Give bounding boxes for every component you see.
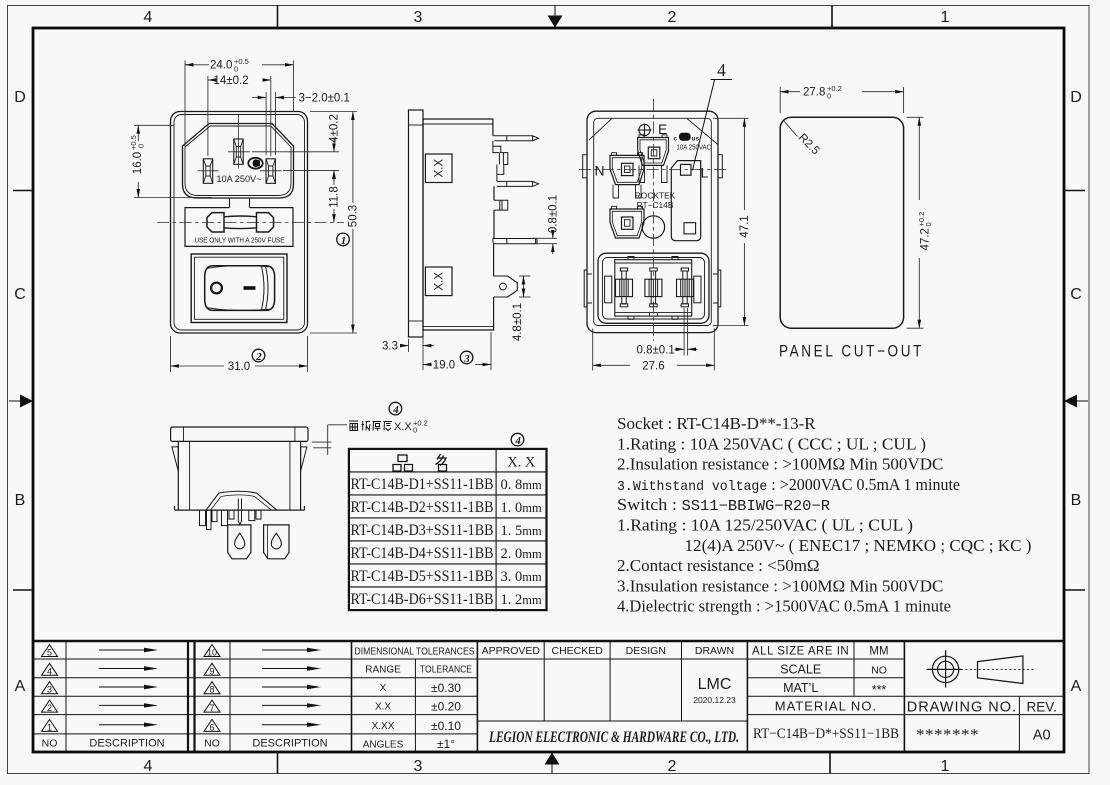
svg-text:50.3: 50.3 (347, 205, 359, 227)
svg-text:C: C (14, 286, 26, 303)
panel thickness label 面板厚度X.X (349, 419, 428, 435)
svg-text:3: 3 (414, 758, 423, 775)
svg-text:TOLERANCE: TOLERANCE (420, 665, 472, 676)
svg-text:2: 2 (668, 9, 677, 26)
svg-text:us: us (692, 136, 700, 143)
text 16.0 (129, 135, 146, 174)
svg-text:24.0: 24.0 (210, 60, 232, 72)
table header 品名 glyphs (393, 454, 447, 471)
svg-text:12(4)A 250V~ ( ENEC17 ; NEMKO: 12(4)A 250V~ ( ENEC17 ; NEMKO ; CQC ; KC… (685, 536, 1032, 555)
zone tick top 4/3 (277, 6, 279, 29)
view3 outlet face top bar (615, 262, 692, 264)
svg-text:X: X (380, 683, 387, 694)
dim 3.3 arrows (400, 345, 409, 347)
svg-text:47.1: 47.1 (739, 215, 751, 237)
R2.5 leader (784, 121, 798, 137)
svg-text:4: 4 (47, 666, 52, 676)
svg-text:B: B (1071, 492, 1082, 509)
view2 switch housing steps (493, 141, 508, 182)
svg-text:RT−C14B: RT−C14B (637, 200, 674, 210)
balloon 4a (389, 402, 402, 416)
contact middle (645, 268, 662, 307)
dim 0.8±0.1 arrows (552, 231, 554, 238)
svg-text:CHECKED: CHECKED (552, 645, 604, 657)
zone center arrow right (1064, 395, 1088, 408)
svg-text:±0.20: ±0.20 (431, 700, 461, 714)
table1 right double line (187, 641, 189, 751)
view2 dim texts (382, 195, 559, 372)
revision triangles table1 (42, 645, 58, 732)
svg-text:RT-C14B-D3+SS11-1BB: RT-C14B-D3+SS11-1BB (351, 522, 494, 539)
view1 fuse right cap (257, 213, 274, 232)
svg-text:X.X: X.X (434, 272, 446, 291)
zone labels top (144, 9, 950, 26)
contact right (677, 268, 694, 307)
view1 switch inner bezel (194, 257, 283, 319)
svg-text:RANGE: RANGE (365, 665, 401, 676)
revision arrows table2 (262, 648, 321, 727)
horizontal row line 2 left (33, 677, 477, 679)
svg-text:4: 4 (144, 758, 153, 775)
view1 C14 inlet outer (183, 124, 294, 199)
svg-text:c: c (674, 136, 678, 143)
svg-text:RT-C14B-D1+SS11-1BB: RT-C14B-D1+SS11-1BB (351, 476, 494, 493)
svg-text:ANGLES: ANGLES (363, 739, 404, 750)
view3 outlet face bottom bar (615, 312, 692, 314)
view1 crosshair pin E (228, 151, 250, 153)
dim 4.8±0.1 ext lines (519, 275, 531, 277)
glyph 品 (393, 455, 413, 471)
zone center arrow bottom (545, 753, 560, 774)
view1 centerline pin E vertical (238, 115, 240, 169)
horizontal row line 5 left (33, 733, 477, 735)
svg-text:11.8: 11.8 (329, 186, 341, 208)
view3 E pin housing (638, 138, 669, 166)
view2 body right edge segments (423, 186, 494, 330)
svg-text:±1°: ±1° (437, 737, 455, 751)
view3 face notches bottom (628, 313, 678, 320)
svg-text:4.Dielectric strength : >1500: 4.Dielectric strength : >1500VAC 0.5mA 1… (617, 597, 951, 616)
title block top edge (33, 640, 1064, 643)
svg-text:0: 0 (234, 65, 238, 74)
glyph 面 (349, 421, 358, 431)
view3 outlet contacts (616, 268, 694, 307)
svg-text:Socket : RT-C14B-D**-13-R: Socket : RT-C14B-D**-13-R (617, 414, 816, 433)
view2 dimensions (400, 231, 557, 370)
view1 body outline outer (171, 112, 308, 334)
view3 N housing (610, 155, 644, 184)
panel cutout rectangle (780, 117, 903, 328)
view3 body outer (587, 111, 718, 332)
view5 rocker dome (206, 491, 277, 510)
svg-text:0: 0 (924, 222, 933, 226)
approved col dividers (543, 641, 545, 721)
view3 dimensions (593, 118, 749, 370)
svg-text:PANEL CUT−OUT: PANEL CUT−OUT (779, 343, 924, 361)
view3 screw symbol (638, 124, 652, 137)
view5 flange division lines (183, 427, 185, 441)
view3 N pin (622, 163, 634, 175)
svg-text:3.3: 3.3 (382, 341, 398, 353)
view3 B housing ears (612, 206, 643, 209)
svg-text:3. 0mm: 3. 0mm (501, 569, 542, 585)
svg-text:L: L (701, 165, 709, 181)
glyph 板 (362, 421, 371, 431)
svg-text:X.X: X.X (434, 159, 446, 178)
view3 dim texts (637, 215, 751, 372)
svg-text:10A 250VAC: 10A 250VAC (677, 143, 712, 152)
svg-text:±0.10: ±0.10 (431, 719, 461, 733)
svg-text:1: 1 (341, 235, 347, 247)
company row top line (477, 720, 747, 722)
view5 spade terminal right (264, 525, 289, 559)
svg-text:E: E (658, 121, 667, 137)
view5 bottom edge (175, 506, 305, 510)
right info texts (752, 646, 1057, 716)
svg-text:D: D (14, 89, 26, 106)
balloon 3 (460, 351, 473, 365)
view5 body sides (178, 441, 300, 510)
dim 4±0.2 ext lines (252, 151, 339, 153)
svg-text:1: 1 (941, 9, 950, 26)
balloon 1 (337, 233, 350, 247)
view1 fuse centerline (157, 221, 344, 223)
view5 left wedge (172, 447, 178, 471)
table outline (349, 449, 547, 610)
svg-text:MAT’L: MAT’L (783, 681, 818, 695)
view1 rocker top/bottom shade lines (206, 266, 272, 311)
view3 C13 outlet outer (598, 253, 709, 323)
svg-text:2: 2 (255, 351, 262, 363)
table row lines (349, 471, 547, 473)
view5 center terminal pin (238, 499, 241, 525)
drawn col right edge (746, 641, 748, 751)
svg-text:3.Insulation resistance : >10: 3.Insulation resistance : >100MΩ Min 500… (617, 576, 943, 595)
svg-text:0.8±0.1: 0.8±0.1 (547, 195, 559, 233)
horizontal row line 2 right (747, 677, 904, 679)
view3 body inner face (594, 118, 712, 325)
view1 certification logo (248, 158, 262, 169)
view3 B housing (610, 209, 644, 238)
view3 N housing legs (613, 185, 641, 198)
svg-text:0: 0 (827, 91, 831, 100)
table column divider (495, 449, 497, 610)
glyph 厚 (373, 422, 382, 431)
svg-text:ROCKTEK: ROCKTEK (635, 191, 676, 201)
svg-text:2.Contact resistance : <50mΩ: 2.Contact resistance : <50mΩ (617, 556, 820, 575)
svg-text:3−2.0±0.1: 3−2.0±0.1 (299, 93, 350, 105)
view1 switch dash symbol (244, 286, 256, 290)
view3 E housing legs (639, 165, 667, 182)
svg-text:31.0: 31.0 (228, 361, 250, 373)
view3 face side brackets (605, 276, 612, 303)
dim 0.8±0.1 ext lines (683, 308, 685, 356)
zone tick top 2/1 (831, 6, 833, 29)
view1 fuse left cap (207, 213, 224, 232)
svg-text:0: 0 (413, 426, 417, 435)
dim 47.1 ext lines (713, 117, 749, 119)
mm col divider (853, 641, 855, 696)
zone tick right D/C (1064, 190, 1085, 192)
panel thickness callout lines (312, 425, 347, 455)
svg-text:4: 4 (514, 435, 521, 447)
zone tick bottom 4/3 (277, 752, 279, 774)
revision arrows table1 (99, 648, 158, 727)
view3 fuse slot lower square (684, 223, 696, 234)
svg-text:8: 8 (209, 685, 214, 695)
svg-text:3: 3 (47, 685, 52, 695)
svg-text:DRAWING NO.: DRAWING NO. (907, 700, 1017, 716)
svg-text:RT-C14B-D2+SS11-1BB: RT-C14B-D2+SS11-1BB (351, 499, 494, 516)
svg-text:A: A (1071, 678, 1082, 695)
view3 face notches top (628, 257, 678, 260)
svg-text:1. 2mm: 1. 2mm (501, 592, 542, 608)
svg-text:1: 1 (941, 758, 950, 775)
dim 4.8±0.1 line (523, 276, 525, 297)
svg-text:27.6: 27.6 (642, 360, 664, 372)
right section divider (903, 641, 905, 751)
view1 rocker front edge lines (262, 266, 269, 310)
view3 B pin (622, 217, 634, 229)
view2 switch pin 1 (493, 136, 539, 141)
view3 cURus logo (674, 133, 700, 143)
svg-text:RT−C14B−D*+SS11−1BB: RT−C14B−D*+SS11−1BB (753, 726, 899, 742)
dim 47.2 line (918, 117, 920, 200)
dim 50.3 ext lines (310, 111, 357, 113)
table2 right edge (351, 641, 353, 751)
view1 fuse compartment box (185, 208, 293, 247)
svg-text:2020.12.23: 2020.12.23 (693, 695, 736, 705)
svg-text:4.8±0.1: 4.8±0.1 (512, 303, 524, 341)
approved header texts (482, 645, 735, 657)
view1 C14 inlet inner (185, 126, 291, 196)
horizontal row line 4 left (33, 714, 477, 716)
svg-text:2: 2 (47, 703, 52, 713)
third angle projection symbol (927, 650, 1035, 687)
dim 14 ext lines (207, 76, 209, 156)
svg-text:ALL SIZE ARE IN: ALL SIZE ARE IN (752, 646, 849, 658)
tolerance col divider (414, 659, 416, 751)
view5 right wedge (301, 447, 307, 471)
svg-text:USE ONLY WITH A 250V FUSE: USE ONLY WITH A 250V FUSE (195, 236, 285, 245)
view1 switch outer bezel (191, 254, 287, 323)
zone tick right B/A (1064, 589, 1085, 591)
zone tick left D/C (13, 190, 33, 192)
svg-text:47.2: 47.2 (920, 228, 932, 250)
view3 side latch lower right (713, 270, 721, 307)
balloon 4b (511, 433, 524, 447)
view3 outlet face (615, 260, 692, 316)
view3 side latch lower left (584, 270, 592, 307)
svg-text:16.0: 16.0 (132, 152, 144, 174)
view3 C13 outlet inner (603, 258, 705, 320)
view3 N housing ears (612, 153, 643, 156)
svg-text:27.8: 27.8 (803, 87, 825, 99)
svg-text:DESIGN: DESIGN (626, 645, 666, 657)
revision triangles table2 (204, 645, 220, 732)
svg-text:RT-C14B-D6+SS11-1BB: RT-C14B-D6+SS11-1BB (351, 591, 494, 608)
view2 X.X box lower (425, 267, 452, 296)
dim 27.6 line (593, 364, 630, 366)
view2 small middle tab (494, 200, 508, 210)
dim 47.1 line (743, 118, 745, 210)
dim 19.0 ext line right (490, 332, 492, 370)
view5 spade left teardrop hole (235, 533, 245, 549)
balloon item 4 leader (693, 60, 733, 170)
view5 dome inner line (211, 495, 272, 510)
dim 0.8±0.1 arrows (675, 348, 685, 350)
dim 3.3 ext lines (408, 339, 410, 352)
view5 spade right teardrop hole (271, 533, 281, 549)
view1 pin E (234, 139, 243, 164)
view2 switch pin 2 (497, 181, 539, 186)
rev col divider (1018, 696, 1020, 751)
svg-text:RT-C14B-D4+SS11-1BB: RT-C14B-D4+SS11-1BB (351, 545, 494, 562)
view1 rocker button (205, 266, 275, 311)
svg-text:MM: MM (869, 646, 888, 658)
svg-text:19.0: 19.0 (433, 360, 455, 372)
view3 side latch upper right (718, 155, 722, 178)
dim 27.8 ext lines (779, 87, 781, 113)
svg-text:DRAWN: DRAWN (695, 645, 734, 657)
dim 0.8±0.1 ext lines (532, 237, 558, 239)
horizontal row line 3 right (747, 695, 1064, 697)
svg-text:NO: NO (42, 738, 58, 750)
svg-text:D: D (1070, 89, 1082, 106)
zone tick bottom 2/1 (829, 752, 831, 774)
svg-text:1. 0mm: 1. 0mm (501, 500, 542, 516)
dim 31.0 ext lines (170, 336, 172, 372)
dim 24.0 line (185, 64, 209, 66)
view2 snap lug pentagon (494, 276, 518, 297)
horizontal row line 3 left (33, 695, 477, 697)
view1 fuse body (224, 216, 257, 229)
view1 switch O symbol (211, 283, 222, 294)
svg-text:C: C (1070, 286, 1082, 303)
dim 16.0 ext lines (134, 124, 175, 126)
view2 flange cap lines (409, 124, 424, 126)
zone labels bottom (144, 758, 950, 775)
svg-text:6: 6 (209, 722, 214, 732)
svg-text:1. 5mm: 1. 5mm (501, 523, 542, 539)
svg-text:B: B (15, 492, 26, 509)
balloon 2 (252, 349, 265, 363)
dim 27.8 line (780, 91, 800, 93)
svg-text:9: 9 (209, 666, 214, 676)
svg-text:1: 1 (47, 722, 52, 732)
view1 body outline inner (174, 115, 305, 331)
svg-text:DESCRIPTION: DESCRIPTION (252, 738, 327, 750)
glyph 名 (436, 454, 447, 471)
vertical NO col table1 (65, 641, 67, 751)
view5 terminal pins row (200, 510, 262, 529)
svg-text:A0: A0 (1033, 728, 1051, 744)
zone tick left B/A (13, 589, 33, 591)
svg-text:SCALE: SCALE (780, 662, 821, 676)
svg-text:REV.: REV. (1027, 700, 1057, 715)
dim 24.0 ext lines (184, 61, 186, 150)
dim 50.3 line (352, 112, 354, 204)
title block small texts (42, 738, 328, 750)
svg-text:APPROVED: APPROVED (482, 645, 541, 657)
text 27.8 +0.2/0 (803, 84, 842, 100)
svg-text:0. 8mm: 0. 8mm (501, 477, 542, 493)
svg-text:MATERIAL NO.: MATERIAL NO. (775, 699, 877, 714)
dim 2.0 ext lines (265, 92, 267, 155)
dim 2.0 arrows and leader (252, 97, 266, 99)
horizontal row line 4 right (747, 714, 1064, 716)
view3 L pin square (681, 164, 692, 175)
view3 corner chamfer right (687, 118, 718, 144)
dim 19.0 line (423, 364, 429, 366)
svg-text:NO: NO (871, 664, 887, 676)
svg-text:DESCRIPTION: DESCRIPTION (89, 738, 164, 750)
svg-text:X. X: X. X (507, 455, 536, 471)
svg-text:4±0.2: 4±0.2 (329, 114, 341, 143)
svg-text:LMC: LMC (698, 676, 732, 693)
view3 E housing ears (639, 135, 667, 138)
view3 E pin (648, 147, 660, 159)
svg-text:3: 3 (463, 353, 470, 365)
svg-text:A: A (15, 678, 26, 695)
svg-text:10A 250V~: 10A 250V~ (217, 174, 262, 184)
svg-text:2.Insulation resistance : >10: 2.Insulation resistance : >100MΩ Min 500… (617, 455, 943, 474)
dim 27.6 ext lines (592, 329, 594, 371)
contact left (616, 268, 633, 307)
horizontal row line 1 (33, 658, 904, 660)
dim 31.0 line (171, 365, 225, 367)
dim 14 line (208, 79, 212, 81)
dim 16.0 line (137, 125, 139, 141)
svg-text:5: 5 (47, 648, 52, 658)
glyph 度 (384, 422, 393, 431)
view5 body inner walls (190, 441, 290, 510)
view3 vertical centerline (652, 99, 654, 341)
svg-text:3: 3 (414, 9, 423, 26)
vertical NO col table2 (229, 641, 231, 751)
svg-text:X.XX: X.XX (372, 721, 395, 732)
dim 11.8 line (333, 170, 335, 185)
dim 4±0.2 lines arrows outside (333, 138, 335, 152)
svg-text:0: 0 (137, 144, 146, 148)
svg-text:X.X: X.X (394, 421, 412, 433)
view2 bottom inner line (423, 325, 494, 327)
svg-text:4: 4 (717, 60, 726, 80)
zone center arrow left (9, 395, 33, 408)
dim 47.2 ext lines (907, 116, 924, 118)
view1 crosshair pin N (198, 170, 219, 172)
svg-text:4: 4 (144, 9, 153, 26)
view2 mounting lip (493, 239, 537, 244)
svg-text:2. 0mm: 2. 0mm (501, 546, 542, 562)
svg-text:X.X: X.X (375, 702, 391, 713)
view2 X.X box upper (425, 154, 452, 183)
zone labels right (1070, 89, 1082, 695)
view3 side latch upper left (583, 155, 587, 178)
view2 flange (409, 110, 424, 337)
view2 snap lug hole (500, 283, 507, 290)
svg-text:7: 7 (209, 703, 214, 713)
svg-text:***: *** (872, 683, 887, 697)
view5 spade right inner line (267, 525, 269, 559)
svg-text:14±0.2: 14±0.2 (214, 75, 249, 87)
view5 spade terminal left (228, 525, 251, 559)
svg-text:NO: NO (204, 738, 220, 750)
svg-text:±0.30: ±0.30 (431, 681, 461, 695)
zone center arrow top (548, 6, 563, 28)
tolerance table right edge (476, 641, 478, 751)
view3 horizontal centerline (579, 169, 726, 171)
